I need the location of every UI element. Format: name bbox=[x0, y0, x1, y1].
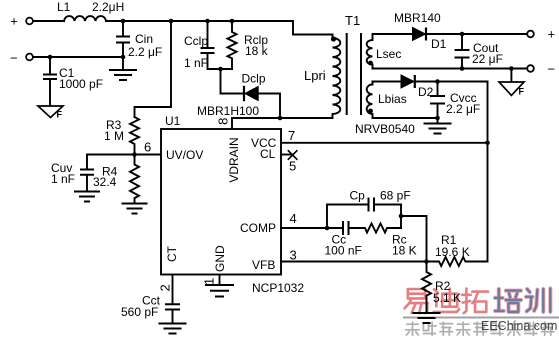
node VFB divider bbox=[424, 259, 429, 264]
resistor R1 bbox=[427, 233, 488, 266]
Lsec phase dot bbox=[368, 61, 373, 66]
svg-text:COMP: COMP bbox=[240, 221, 276, 235]
wire - output rail bbox=[373, 68, 528, 70]
watermark EEChina.com bbox=[481, 319, 557, 333]
pin 5 stub with X bbox=[281, 150, 297, 173]
diode D2 NRVB0540 bbox=[401, 75, 434, 99]
svg-text:EEChina.com: EEChina.com bbox=[481, 319, 557, 333]
svg-text:5.1 K: 5.1 K bbox=[433, 291, 461, 305]
wire D1 to + output bbox=[426, 33, 527, 35]
pin label VCC bbox=[251, 136, 277, 150]
output + terminal bbox=[527, 27, 555, 42]
svg-text:2.2μH: 2.2μH bbox=[92, 0, 124, 14]
wire Cp branch down bbox=[400, 205, 402, 229]
svg-text:2.2 μF: 2.2 μF bbox=[128, 45, 162, 59]
ground below R4 bbox=[122, 204, 148, 214]
pin 3 bbox=[290, 248, 297, 263]
ground below GND pin bbox=[205, 285, 234, 297]
wire Lsec top to D1 bbox=[373, 33, 413, 35]
svg-text:+: + bbox=[10, 14, 18, 29]
Lbias phase dot bbox=[368, 109, 373, 114]
core lines bbox=[347, 33, 361, 115]
op IC U1 NCP1032 box bbox=[161, 114, 304, 295]
secondary winding Lsec bbox=[367, 34, 402, 69]
svg-text:L1: L1 bbox=[57, 0, 71, 14]
svg-text:18 K: 18 K bbox=[392, 244, 417, 258]
svg-text:D1: D1 bbox=[431, 37, 447, 51]
wire Dclp anode to VDRAIN net bbox=[258, 94, 280, 119]
node Cclp on rail bbox=[205, 19, 210, 24]
wire clamp bottom bbox=[208, 68, 233, 70]
wire + rail down to R3 bbox=[135, 21, 172, 117]
svg-text:NCP1032: NCP1032 bbox=[252, 281, 304, 295]
CT pin wire bbox=[172, 275, 174, 305]
bias bus wire bbox=[487, 82, 489, 262]
svg-text:1: 1 bbox=[202, 278, 217, 285]
wire Cp branch up bbox=[327, 205, 365, 229]
node Cin / minus rail bbox=[121, 55, 126, 60]
svg-text:18 k: 18 k bbox=[245, 44, 269, 58]
svg-text:CT: CT bbox=[165, 245, 179, 262]
svg-text:22 μF: 22 μF bbox=[472, 52, 503, 66]
bias winding Lbias bbox=[367, 82, 407, 119]
svg-text:8: 8 bbox=[216, 118, 231, 125]
capacitor Cout bbox=[455, 34, 503, 69]
svg-text:NRVB0540: NRVB0540 bbox=[355, 122, 415, 136]
svg-text:4: 4 bbox=[290, 211, 297, 226]
wire clamp to Dclp bbox=[221, 69, 245, 94]
capacitor Cvcc bbox=[430, 82, 480, 124]
input + terminal bbox=[10, 14, 33, 29]
ground below Cct bbox=[159, 324, 187, 334]
svg-text:560 pF: 560 pF bbox=[121, 305, 158, 319]
svg-text:Lsec: Lsec bbox=[376, 47, 401, 61]
pin 8 stub bbox=[216, 118, 233, 129]
resistor Rclp bbox=[228, 21, 269, 69]
earth ground triangle (input) bbox=[38, 106, 63, 120]
capacitor Cin bbox=[116, 21, 162, 59]
svg-text:MBR140: MBR140 bbox=[394, 11, 441, 25]
svg-text:7: 7 bbox=[288, 128, 295, 143]
capacitor Cct bbox=[121, 294, 180, 324]
watermark logo characters bbox=[405, 289, 551, 314]
output - terminal bbox=[527, 62, 555, 77]
svg-text:6: 6 bbox=[144, 140, 151, 155]
svg-text:F: F bbox=[519, 87, 525, 97]
wire + terminal to L1 bbox=[33, 20, 64, 22]
GND pin wire bbox=[219, 275, 221, 286]
wire Lbias top to D2 bbox=[373, 81, 402, 83]
node VCC tap bbox=[485, 141, 490, 146]
svg-text:1 nF: 1 nF bbox=[184, 56, 208, 70]
svg-text:Cclp: Cclp bbox=[184, 34, 208, 48]
node Cvcc top bbox=[435, 79, 440, 84]
pin label CT bbox=[165, 245, 179, 262]
diode D1 MBR140 bbox=[394, 11, 447, 51]
capacitor Cclp bbox=[184, 21, 215, 70]
capacitor C1 bbox=[43, 57, 103, 106]
svg-text:1 nF: 1 nF bbox=[51, 172, 75, 186]
capacitor Cp bbox=[350, 189, 411, 212]
ground below Cuv bbox=[74, 192, 100, 202]
svg-text:1000 pF: 1000 pF bbox=[59, 77, 103, 91]
svg-text:F: F bbox=[57, 110, 63, 120]
pin label VFB bbox=[252, 258, 275, 272]
node VDRAIN net bbox=[278, 116, 283, 121]
resistor R3 bbox=[104, 117, 139, 155]
svg-text:19.6 K: 19.6 K bbox=[435, 245, 470, 259]
svg-text:2: 2 bbox=[158, 284, 173, 291]
svg-text:−: − bbox=[548, 62, 556, 77]
pin 2 bbox=[158, 284, 173, 291]
svg-text:VFB: VFB bbox=[252, 258, 275, 272]
inductor L1 bbox=[57, 0, 124, 21]
svg-text:VDRAIN: VDRAIN bbox=[227, 137, 241, 182]
wire comp net to VFB node bbox=[401, 216, 427, 262]
ground below Cin bbox=[109, 57, 137, 80]
diode Dclp bbox=[197, 72, 266, 119]
ground below R2 bbox=[413, 313, 441, 323]
svg-text:100 nF: 100 nF bbox=[325, 244, 362, 258]
capacitor Cuv bbox=[51, 161, 94, 192]
wire node to pin6 bbox=[135, 154, 162, 156]
COMP pin wire bbox=[281, 227, 327, 229]
node output ground tap bbox=[509, 66, 514, 71]
svg-text:T1: T1 bbox=[345, 13, 360, 28]
pin 1 bbox=[202, 278, 217, 285]
pin 6 bbox=[144, 140, 151, 155]
svg-text:68 pF: 68 pF bbox=[380, 189, 411, 203]
svg-text:5: 5 bbox=[289, 159, 296, 174]
pin label GND bbox=[213, 245, 227, 272]
Lpri phase dot bbox=[331, 36, 336, 41]
pin label VDRAIN bbox=[227, 137, 241, 182]
wire VCC pin7 bbox=[281, 142, 488, 144]
watermark slogan pseudo-characters bbox=[406, 322, 554, 335]
wire Lbias bottom to ground bbox=[373, 117, 438, 119]
node COMP bbox=[325, 226, 330, 231]
wire node to Cuv bbox=[87, 155, 135, 170]
transformer T1 label bbox=[345, 13, 360, 28]
svg-text:Cin: Cin bbox=[135, 32, 153, 46]
watermark underline bbox=[403, 317, 559, 319]
resistor R2 bbox=[422, 262, 461, 314]
svg-text:1 M: 1 M bbox=[104, 129, 124, 143]
resistor Rc bbox=[349, 224, 417, 258]
node Rclp on rail bbox=[230, 19, 235, 24]
ground below Cvcc bbox=[424, 124, 452, 134]
node Cout bottom bbox=[460, 66, 465, 71]
input - terminal bbox=[10, 51, 33, 66]
svg-text:U1: U1 bbox=[165, 114, 181, 128]
svg-text:32.4: 32.4 bbox=[93, 175, 117, 189]
wire - terminal rail bbox=[33, 56, 123, 58]
svg-text:2.2 μF: 2.2 μF bbox=[446, 102, 480, 116]
node UV/OV divider bbox=[132, 152, 137, 157]
node R3 tap on + rail bbox=[169, 19, 174, 24]
capacitor Cc bbox=[325, 221, 362, 258]
pin label COMP bbox=[240, 221, 276, 235]
pin 4 bbox=[290, 211, 297, 226]
pin 7 bbox=[288, 128, 295, 143]
svg-text:Cp: Cp bbox=[350, 189, 366, 203]
pin label UV/OV bbox=[166, 148, 203, 162]
pin label CL bbox=[260, 147, 276, 161]
svg-text:Dclp: Dclp bbox=[242, 72, 266, 86]
earth ground triangle (output) bbox=[499, 69, 525, 97]
node L1/Cin bbox=[121, 19, 126, 24]
svg-text:CL: CL bbox=[260, 147, 276, 161]
node C1 bbox=[48, 55, 53, 60]
svg-text:−: − bbox=[10, 51, 18, 66]
node Cout top bbox=[460, 32, 465, 37]
VFB pin wire bbox=[281, 261, 427, 263]
svg-text:Lbias: Lbias bbox=[378, 92, 407, 106]
wire D2 to bias node bbox=[415, 81, 488, 83]
node clamp bottom bbox=[218, 67, 223, 72]
svg-text:MBR1H100: MBR1H100 bbox=[197, 104, 259, 118]
wire VDRAIN row bbox=[232, 117, 333, 119]
node comp network out bbox=[399, 214, 404, 219]
svg-text:+: + bbox=[548, 27, 556, 42]
node Lbias bottom bbox=[435, 116, 440, 121]
primary winding Lpri bbox=[304, 35, 340, 119]
wire L1 to transformer (+ rail) bbox=[106, 21, 333, 35]
resistor R4 bbox=[93, 155, 139, 204]
svg-text:Lpri: Lpri bbox=[304, 68, 326, 83]
NRVB0540 label bbox=[355, 122, 415, 136]
svg-text:GND: GND bbox=[213, 245, 227, 272]
svg-text:UV/OV: UV/OV bbox=[166, 148, 203, 162]
svg-text:3: 3 bbox=[290, 248, 297, 263]
